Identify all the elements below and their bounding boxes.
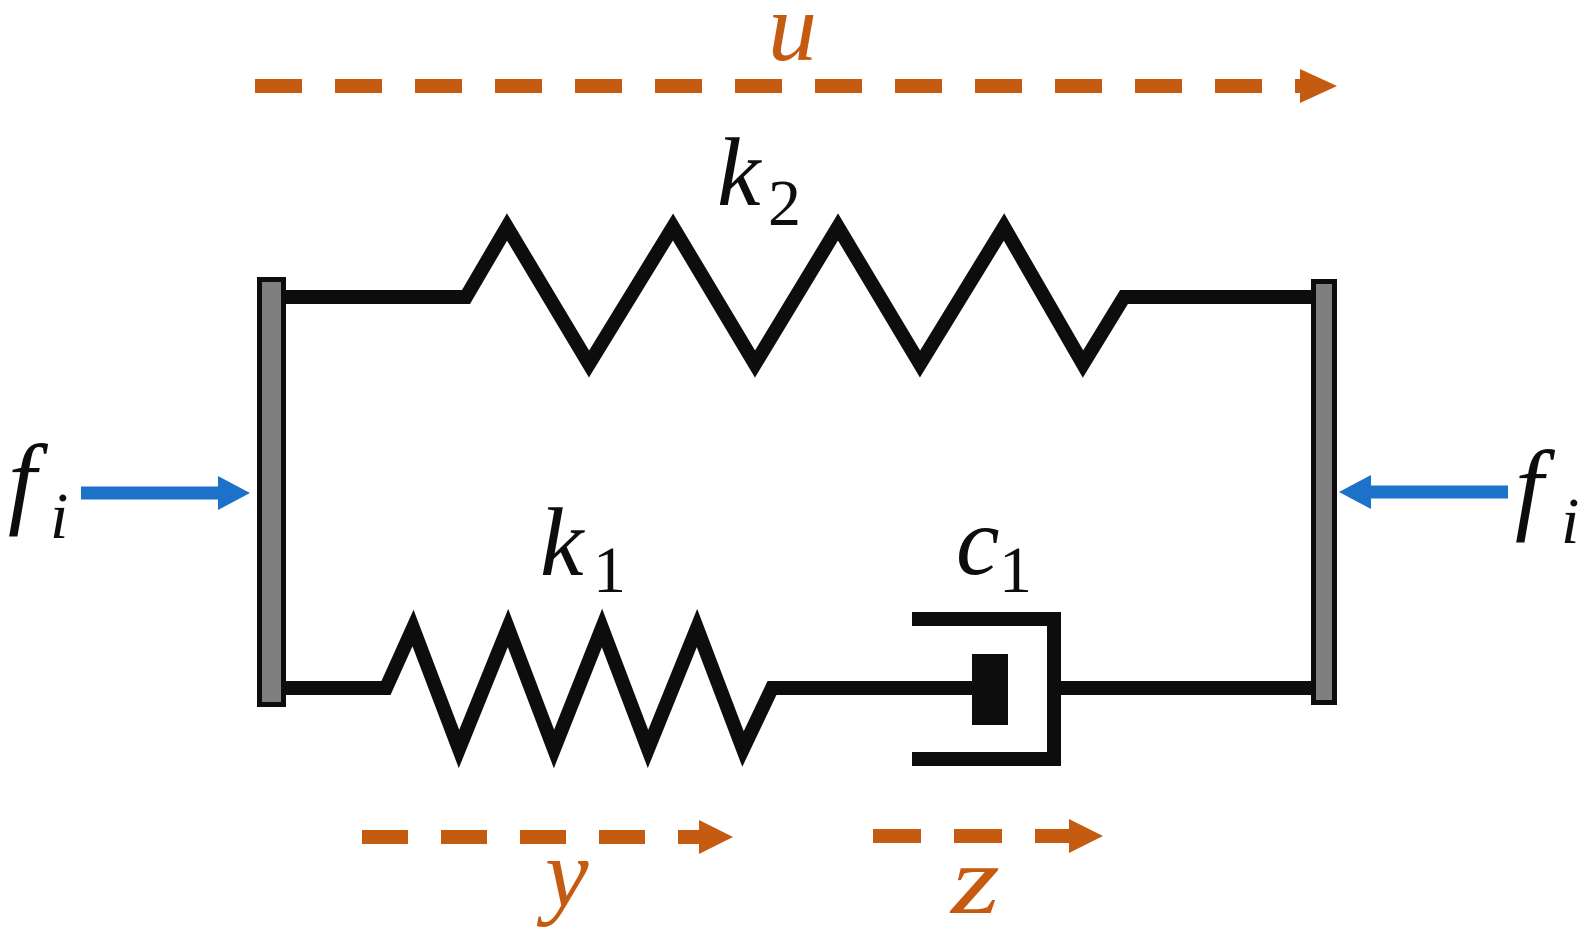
svg-text:1: 1 xyxy=(999,534,1032,607)
svg-text:i: i xyxy=(1561,485,1579,558)
wire + spring k2 (top branch) xyxy=(284,227,1312,364)
force arrow f_i left (blue) xyxy=(81,487,218,500)
displacement arrow y (dashed orange, bottom left) xyxy=(362,830,699,844)
svg-text:1: 1 xyxy=(593,534,626,607)
svg-text:k: k xyxy=(717,119,762,227)
svg-text:z: z xyxy=(948,827,1000,935)
damper output rod to right plate xyxy=(1061,681,1312,695)
svg-text:i: i xyxy=(50,480,68,553)
svg-text:k: k xyxy=(540,489,585,597)
svg-text:2: 2 xyxy=(768,167,801,240)
svg-text:c: c xyxy=(956,488,1000,596)
arrowhead of z arrow xyxy=(1069,819,1103,853)
displacement arrow u (dashed orange, top) xyxy=(255,79,1300,93)
left plate (wall) xyxy=(260,280,284,705)
arrowhead of y arrow xyxy=(699,820,733,854)
damper c1 piston xyxy=(972,654,1008,725)
wire + spring k1 (bottom branch, left) xyxy=(284,628,972,749)
force arrow f_i right (blue) xyxy=(1371,486,1508,499)
svg-text:u: u xyxy=(768,0,817,82)
arrowhead of u arrow xyxy=(1300,69,1337,103)
damper c1 cylinder xyxy=(912,619,1054,759)
right plate (wall) xyxy=(1314,282,1335,703)
displacement arrow z (dashed orange, bottom right) xyxy=(873,829,1069,843)
